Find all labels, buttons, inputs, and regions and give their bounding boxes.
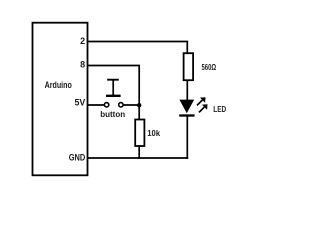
wire pin8 down to 10k [88, 66, 139, 120]
button S1 [104, 80, 123, 107]
svg-text:2: 2 [80, 36, 85, 46]
svg-text:LED: LED [213, 105, 226, 114]
LED D1 [179, 97, 207, 115]
wire LED to GND rail [186, 116, 188, 159]
svg-text:10k: 10k [147, 129, 160, 138]
GND rail wire [88, 157, 188, 159]
resistor R1 560 ohm [184, 53, 194, 80]
junction node [137, 103, 141, 107]
wire 5V to button S1 [88, 104, 104, 106]
wire button to junction [123, 104, 139, 106]
Arduino U1 [33, 23, 88, 176]
wire pin2 to resistor R1 [88, 42, 187, 54]
resistor R2 10k [135, 120, 144, 147]
svg-text:560Ω: 560Ω [202, 63, 217, 72]
svg-text:Arduino: Arduino [45, 80, 73, 90]
svg-text:GND: GND [69, 152, 86, 162]
wire 10k to GND rail [138, 146, 140, 159]
LED arrows [197, 99, 203, 105]
svg-text:button: button [100, 110, 125, 119]
wire R1 to LED [186, 80, 188, 100]
svg-text:8: 8 [80, 60, 85, 70]
svg-text:5V: 5V [75, 98, 86, 108]
